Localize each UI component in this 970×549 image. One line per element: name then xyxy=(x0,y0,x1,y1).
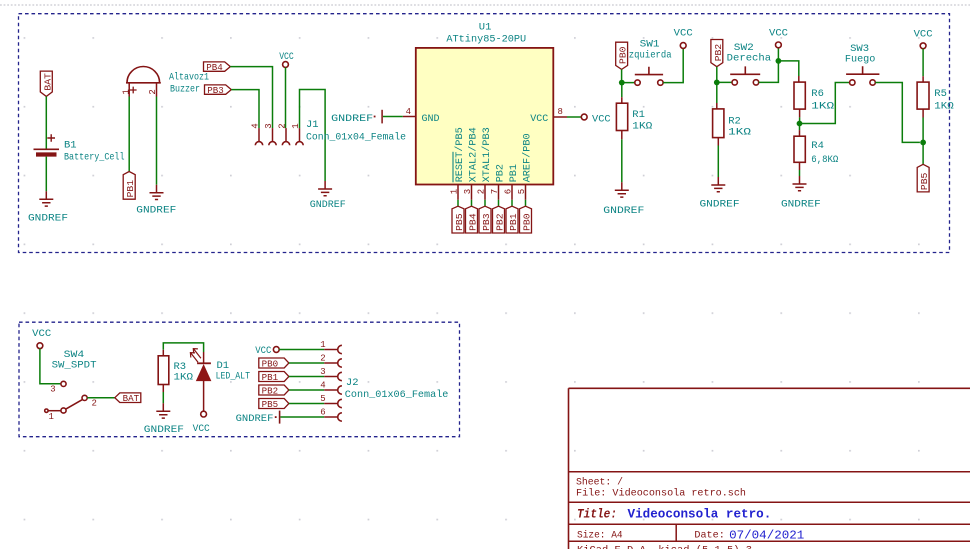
label PB4 xyxy=(204,62,231,73)
power flag GNDREF at U1 pin4 xyxy=(331,110,382,125)
connector J2 Conn_01x06_Female xyxy=(320,340,448,421)
label PB3 xyxy=(205,85,232,96)
svg-text:PB3: PB3 xyxy=(481,213,492,231)
wire pin to label PB3 xyxy=(484,200,486,206)
svg-text:1: 1 xyxy=(49,412,54,422)
svg-text:2: 2 xyxy=(92,399,97,409)
svg-text:GNDREF: GNDREF xyxy=(310,199,346,211)
svg-text:BAT: BAT xyxy=(42,73,53,91)
svg-text:1KΩ: 1KΩ xyxy=(632,120,652,132)
svg-text:LED_ALT: LED_ALT xyxy=(216,370,250,382)
ground GNDREF (buzzer) xyxy=(136,185,176,217)
svg-text:PB1: PB1 xyxy=(125,180,136,198)
svg-text:1KΩ: 1KΩ xyxy=(174,371,194,383)
label PB5 (U1) xyxy=(452,206,465,233)
power VCC (SW1) xyxy=(674,27,693,48)
svg-text:Title:: Title: xyxy=(577,508,617,522)
wire VCC to J2 pin1 xyxy=(279,349,324,351)
svg-text:Battery_Cell: Battery_Cell xyxy=(64,152,125,164)
power VCC (LED) xyxy=(193,411,210,435)
pin 6 of U1 xyxy=(504,185,514,200)
ground GNDREF (R4) xyxy=(781,176,821,211)
label PB3 (U1) xyxy=(479,206,492,233)
svg-text:PB0: PB0 xyxy=(262,358,279,369)
svg-text:6: 6 xyxy=(320,407,325,417)
svg-text:PB3: PB3 xyxy=(207,85,224,96)
svg-text:8: 8 xyxy=(558,107,563,117)
op-amp/IC U1 ATtiny85-20PU body xyxy=(416,21,554,184)
wire pin to label PB4 xyxy=(471,200,473,206)
ground GNDREF (R1) xyxy=(603,182,644,217)
ground GNDREF (R2) xyxy=(700,177,740,211)
svg-text:4: 4 xyxy=(406,107,411,117)
switch SW4 SW_SPDT xyxy=(45,349,97,422)
svg-text:2: 2 xyxy=(320,353,325,363)
pin 7 of U1 xyxy=(490,185,500,200)
label PB5 (J2) xyxy=(259,399,289,410)
switch SW2 Derecha xyxy=(727,42,771,85)
svg-text:File: Videoconsola retro.sch: File: Videoconsola retro.sch xyxy=(576,488,746,500)
svg-text:U1: U1 xyxy=(479,21,492,33)
svg-text:VCC: VCC xyxy=(769,27,788,39)
svg-text:4: 4 xyxy=(320,380,325,390)
svg-text:PB4: PB4 xyxy=(206,62,223,73)
top section dashed border xyxy=(19,14,950,253)
svg-text:Date:: Date: xyxy=(694,530,724,542)
power flag GNDREF (J2 pin6) xyxy=(236,411,280,425)
svg-text:GNDREF: GNDREF xyxy=(331,113,373,125)
wire VCC to J1 pin2 xyxy=(285,67,287,128)
svg-text:3: 3 xyxy=(264,123,274,128)
svg-text:VCC: VCC xyxy=(32,328,51,340)
label PB2 (SW2) xyxy=(711,40,724,67)
wire junction to R1 xyxy=(621,83,623,98)
wire pin to label PB2 xyxy=(498,200,500,206)
ground GNDREF (R3) xyxy=(144,403,184,436)
resistor R4 6,8KQ xyxy=(794,136,838,166)
resistor R2 1KQ xyxy=(713,109,751,138)
svg-text:Videoconsola retro.: Videoconsola retro. xyxy=(628,507,772,522)
wire PB3 to J1 pin4 xyxy=(231,90,259,129)
resistor R6 1KQ xyxy=(794,82,834,113)
wire pin to label PB0 xyxy=(525,200,527,206)
wire GNDREF flag to pin4 xyxy=(383,116,403,118)
svg-text:GNDREF: GNDREF xyxy=(700,199,740,211)
label PB0 (U1) xyxy=(520,206,533,233)
resistor R3 1KQ xyxy=(158,350,193,385)
title block size/date xyxy=(577,528,804,542)
svg-text:5: 5 xyxy=(517,189,527,194)
junction (R6/R4/SW3) xyxy=(797,121,803,127)
svg-text:GNDREF: GNDREF xyxy=(28,212,68,224)
svg-text:R6: R6 xyxy=(811,88,824,100)
svg-text:PB1: PB1 xyxy=(508,213,519,231)
label PB0 (SW1) xyxy=(616,42,629,69)
wire SW1 to VCC xyxy=(663,48,683,82)
svg-text:PB5: PB5 xyxy=(262,399,279,410)
svg-text:Conn_01x06_Female: Conn_01x06_Female xyxy=(345,389,449,401)
wire battery to ground xyxy=(45,157,47,192)
svg-text:J1: J1 xyxy=(306,119,319,131)
svg-text:VCC: VCC xyxy=(279,51,294,63)
wire PB0 to J2 xyxy=(289,362,324,364)
svg-text:2: 2 xyxy=(477,189,487,194)
svg-text:5: 5 xyxy=(320,394,325,404)
svg-text:VCC: VCC xyxy=(255,345,271,357)
junction (PB2/R2/SW2) xyxy=(714,80,720,86)
svg-text:VCC: VCC xyxy=(674,27,693,39)
svg-text:zquierda: zquierda xyxy=(629,50,672,62)
wire R2 to ground xyxy=(717,138,719,146)
resistor R1 1KQ xyxy=(616,103,652,132)
svg-text:7: 7 xyxy=(490,189,500,194)
svg-text:3: 3 xyxy=(50,384,55,394)
svg-text:XTAL2/PB4: XTAL2/PB4 xyxy=(468,127,480,182)
svg-text:PB4: PB4 xyxy=(467,213,478,231)
svg-text:GNDREF: GNDREF xyxy=(144,424,184,436)
wire R5 to junction and PB5 xyxy=(922,109,924,117)
wire GNDREF to J2 pin6 xyxy=(280,416,324,418)
svg-text:BAT: BAT xyxy=(123,393,140,404)
svg-text:PB2: PB2 xyxy=(262,385,279,396)
svg-text:PB1: PB1 xyxy=(262,372,279,383)
svg-text:1KΩ: 1KΩ xyxy=(728,126,751,138)
power VCC (SW2) xyxy=(769,27,788,48)
svg-text:GNDREF: GNDREF xyxy=(603,205,644,217)
svg-text:R5: R5 xyxy=(934,88,947,100)
power VCC (SW4) xyxy=(32,328,51,349)
switch SW3 Fuego xyxy=(845,43,880,85)
svg-text:AREF/PB0: AREF/PB0 xyxy=(522,133,534,182)
wire R4 to ground xyxy=(799,162,801,170)
svg-text:Conn_01x04_Female: Conn_01x04_Female xyxy=(306,132,406,144)
svg-text:4: 4 xyxy=(251,123,261,128)
pin 8 VCC of U1 xyxy=(553,107,567,117)
svg-text:6,8KΩ: 6,8KΩ xyxy=(811,154,838,166)
wire junction to R6 xyxy=(778,61,798,76)
wire SW3 right to R5 junction xyxy=(875,83,920,143)
label BAT (SW4) xyxy=(115,393,141,404)
wire SW2 right to VCC column xyxy=(759,48,779,83)
wire pin8 to VCC xyxy=(567,116,581,118)
svg-text:R4: R4 xyxy=(811,140,824,152)
power VCC (J2 pin1) xyxy=(255,345,279,357)
svg-text:1KΩ: 1KΩ xyxy=(934,101,954,113)
resistor R5 1KQ xyxy=(917,82,954,113)
svg-text:XTAL1/PB3: XTAL1/PB3 xyxy=(481,127,493,182)
LED D1 LED_ALT xyxy=(190,349,250,383)
buzzer Altavoz1 xyxy=(121,67,209,96)
wire buzzer pin1 to PB1 xyxy=(128,83,130,97)
label PB1 (J2) xyxy=(259,372,289,383)
svg-text:GNDREF: GNDREF xyxy=(136,205,176,217)
svg-text:1: 1 xyxy=(320,340,325,350)
svg-text:B1: B1 xyxy=(64,140,77,152)
wire VCC to SW4 pin3 xyxy=(40,349,61,384)
svg-text:2: 2 xyxy=(278,123,288,128)
svg-text:3: 3 xyxy=(463,189,473,194)
pin 3 of U1 xyxy=(463,185,473,200)
svg-text:SW_SPDT: SW_SPDT xyxy=(52,360,97,372)
pin 5 of U1 xyxy=(517,185,527,200)
svg-text:1KΩ: 1KΩ xyxy=(811,101,834,113)
wire LED to VCC xyxy=(203,381,205,412)
svg-text:R1: R1 xyxy=(632,109,645,121)
wire junction to R2 xyxy=(716,82,718,103)
wire J1 pin1 to ground xyxy=(300,90,326,182)
svg-text:Buzzer: Buzzer xyxy=(170,84,200,96)
wire SW4 pin2 to BAT xyxy=(87,397,115,399)
svg-text:1: 1 xyxy=(450,189,460,194)
svg-text:Fuego: Fuego xyxy=(845,54,876,66)
wire PB1 to J2 xyxy=(289,376,324,378)
svg-text:KiCad E.D.A. kicad (5.1.5)-3: KiCad E.D.A. kicad (5.1.5)-3 xyxy=(577,544,752,549)
label PB0 (J2) xyxy=(259,358,289,369)
junction (VCC/R6) xyxy=(776,58,782,64)
label PB1 (U1) xyxy=(506,206,519,233)
svg-text:6: 6 xyxy=(504,189,514,194)
title block frame xyxy=(569,388,970,549)
title block title xyxy=(577,507,771,522)
svg-text:Altavoz1: Altavoz1 xyxy=(169,72,209,84)
ground GNDREF (battery) xyxy=(28,191,68,224)
pin 1 of U1 xyxy=(450,185,460,200)
pin 2 of U1 xyxy=(477,185,487,200)
wire top rail R3/LED xyxy=(163,343,203,352)
svg-text:PB2: PB2 xyxy=(495,164,507,182)
svg-text:3: 3 xyxy=(320,367,325,377)
wire pin to label PB1 xyxy=(511,200,513,206)
svg-text:GND: GND xyxy=(422,113,440,125)
ground GNDREF (J1) xyxy=(310,181,346,211)
svg-text:ATtiny85-20PU: ATtiny85-20PU xyxy=(446,34,526,46)
svg-text:PB5: PB5 xyxy=(454,213,465,231)
label PB5 (R5) xyxy=(917,164,930,192)
svg-text:RESET/PB5: RESET/PB5 xyxy=(454,127,466,182)
svg-text:07/04/2021: 07/04/2021 xyxy=(729,528,804,542)
wire R3 to ground xyxy=(162,385,164,393)
label BAT (battery net) xyxy=(40,71,53,96)
label PB2 (J2) xyxy=(259,385,289,396)
svg-text:1: 1 xyxy=(291,123,301,128)
switch SW1 Izquierda xyxy=(629,39,672,86)
wire PB2 to J2 xyxy=(289,389,324,391)
wire pin to label PB5 xyxy=(457,200,459,206)
svg-text:PB0: PB0 xyxy=(618,46,629,64)
power VCC (U1 pin8) xyxy=(581,114,610,126)
svg-text:Size: A4: Size: A4 xyxy=(577,530,623,542)
wire BAT label to battery xyxy=(45,96,47,148)
svg-text:PB0: PB0 xyxy=(521,213,532,231)
junction (PB0/R1/SW1) xyxy=(619,80,625,86)
wire PB5 to J2 xyxy=(289,403,324,405)
battery B1 xyxy=(34,134,125,163)
wire R1 to ground xyxy=(621,131,623,140)
svg-text:GNDREF: GNDREF xyxy=(236,413,274,425)
label PB4 (U1) xyxy=(466,206,479,233)
wire PB4 to J1 pin3 xyxy=(230,67,272,129)
svg-text:J2: J2 xyxy=(346,377,359,389)
wire junction to SW3 left xyxy=(800,83,850,124)
svg-text:VCC: VCC xyxy=(530,113,548,125)
label PB2 (U1) xyxy=(493,206,506,233)
svg-text:VCC: VCC xyxy=(914,28,933,40)
power VCC (R5) xyxy=(914,28,933,48)
wire junction to R4 xyxy=(799,124,801,131)
svg-text:PB2: PB2 xyxy=(713,44,724,62)
svg-text:PB5: PB5 xyxy=(919,172,930,190)
svg-text:VCC: VCC xyxy=(592,114,611,126)
wire PB0 to junction xyxy=(622,69,635,82)
svg-text:VCC: VCC xyxy=(193,423,210,435)
svg-text:PB2: PB2 xyxy=(494,213,505,231)
svg-text:PB1: PB1 xyxy=(508,164,520,182)
junction (R5/SW3/PB5) xyxy=(920,140,926,146)
pin 4 GND of U1 xyxy=(403,107,416,117)
wire VCC to R5 xyxy=(922,49,924,76)
wire R6 to junction below xyxy=(799,109,801,117)
svg-text:Derecha: Derecha xyxy=(727,52,771,64)
svg-text:GNDREF: GNDREF xyxy=(781,199,821,211)
wire buzzer pin2 to ground xyxy=(156,83,158,97)
connector J1 Conn_01x04_Female xyxy=(251,119,407,145)
bottom-left section dashed border xyxy=(19,322,460,437)
label PB1 (buzzer) xyxy=(123,172,136,200)
wire PB2 to junction xyxy=(717,67,732,83)
power VCC (J1 pin2) xyxy=(279,51,294,67)
